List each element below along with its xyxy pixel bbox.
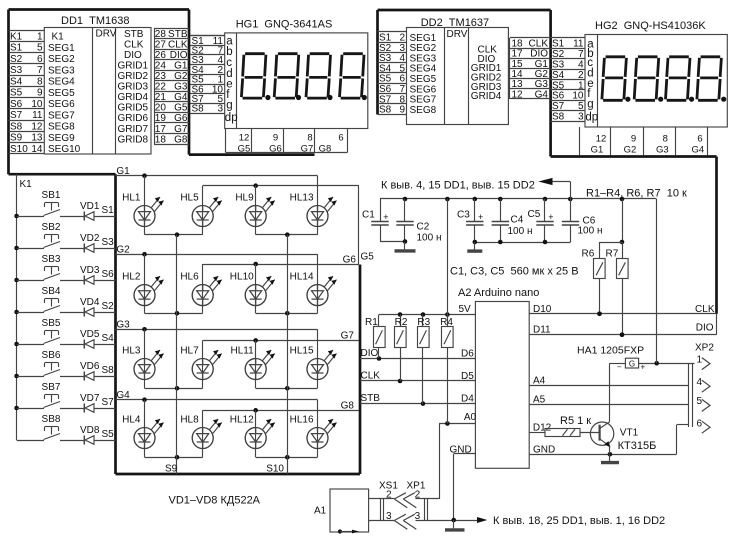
- HG1 digit 1: [241, 54, 266, 98]
- svg-text:dp: dp: [585, 112, 598, 124]
- svg-text:S8: S8: [379, 105, 392, 116]
- diode VD3: [60, 265, 116, 285]
- HG2 decimal point 1: [625, 97, 630, 102]
- svg-text:SEG10: SEG10: [48, 144, 81, 155]
- svg-text:11: 11: [32, 110, 43, 121]
- svg-text:C1, C3, C5 560 мк x 25 В: C1, C3, C5 560 мк x 25 В: [450, 266, 579, 278]
- svg-text:SEG8: SEG8: [410, 105, 437, 116]
- pin GND left wire: [450, 444, 476, 520]
- button SB5: [17, 318, 61, 345]
- svg-text:S8: S8: [192, 104, 205, 115]
- svg-text:7: 7: [578, 49, 584, 60]
- net DIO wire / pin D6: [360, 348, 475, 361]
- wire C1-C2 ground bus: [380, 239, 407, 244]
- svg-text:C3: C3: [457, 210, 470, 221]
- svg-text:DIO: DIO: [361, 348, 379, 359]
- svg-text:HL5: HL5: [180, 193, 199, 204]
- node G1 row bus: [116, 173, 318, 234]
- svg-text:12: 12: [596, 133, 607, 144]
- ground symbol at bus: [445, 520, 465, 530]
- HG1 decimal point 4: [362, 95, 367, 100]
- button SB3: [17, 254, 61, 281]
- svg-text:S5: S5: [552, 80, 565, 91]
- svg-text:S2: S2: [10, 54, 23, 65]
- svg-text:S1: S1: [102, 205, 115, 216]
- svg-text:G8: G8: [319, 143, 332, 154]
- svg-text:SEG9: SEG9: [48, 133, 75, 144]
- svg-text:HL10: HL10: [230, 272, 254, 283]
- svg-text:S2: S2: [552, 49, 565, 60]
- svg-text:D10: D10: [533, 304, 552, 315]
- svg-text:GRID2: GRID2: [118, 71, 149, 82]
- svg-text:G5: G5: [361, 252, 375, 263]
- svg-text:6: 6: [697, 418, 703, 429]
- net K1 bus: [14, 174, 19, 440]
- svg-text:9: 9: [631, 133, 636, 144]
- svg-text:S1: S1: [552, 39, 565, 50]
- resistor R2: [395, 315, 408, 382]
- pin A4 wire: [529, 376, 689, 387]
- svg-text:STB: STB: [361, 393, 381, 404]
- svg-text:18: 18: [155, 134, 167, 145]
- svg-text:SEG4: SEG4: [48, 77, 75, 88]
- HG2 digit 4: [697, 57, 722, 101]
- resistor R7: [606, 242, 629, 337]
- svg-text:HL6: HL6: [180, 272, 199, 283]
- capacitor C5: [544, 199, 546, 221]
- svg-text:S8: S8: [10, 121, 23, 132]
- LED HL8: [180, 415, 221, 449]
- wire row 1 bottom left: [145, 232, 203, 237]
- svg-text:SEG7: SEG7: [48, 110, 75, 121]
- svg-text:DRV: DRV: [96, 29, 117, 40]
- LED HL3: [122, 346, 163, 380]
- HG2 digit 1: [602, 57, 627, 101]
- HG1 digit 4: [340, 54, 365, 98]
- svg-text:17: 17: [155, 124, 167, 135]
- svg-text:S2: S2: [102, 301, 115, 312]
- wire row 2 second bus: [203, 262, 359, 314]
- pin GND right wire: [529, 444, 676, 456]
- svg-text:G3: G3: [656, 144, 669, 155]
- svg-text:S3: S3: [102, 237, 115, 248]
- connector coupling marks: [381, 499, 428, 521]
- svg-text:D6: D6: [461, 349, 474, 360]
- XS1/XP1 pin 2: [369, 489, 440, 508]
- svg-text:8: 8: [663, 133, 668, 144]
- net G5 vertical wire: [358, 186, 360, 265]
- net STB wire / pin D4: [360, 393, 475, 406]
- DD2 right pin boxes 18 CLK..12 G4: [510, 38, 551, 101]
- svg-text:DIO: DIO: [696, 323, 714, 334]
- svg-text:R7: R7: [606, 249, 619, 260]
- svg-text:VD4: VD4: [80, 297, 100, 308]
- pin A0 wire: [439, 412, 476, 426]
- svg-text:HL11: HL11: [231, 346, 255, 357]
- svg-text:CLK: CLK: [695, 304, 715, 315]
- svg-text:9: 9: [273, 132, 278, 143]
- XP2 pin 4: [697, 377, 711, 392]
- diode VD6: [60, 361, 116, 381]
- svg-text:VD1: VD1: [80, 201, 100, 212]
- svg-text:VT1: VT1: [620, 428, 639, 439]
- svg-text:HL15: HL15: [290, 346, 314, 357]
- svg-text:S1: S1: [10, 43, 23, 54]
- svg-text:G8: G8: [341, 400, 355, 411]
- DD1 left pin boxes K1/S1-S10: [9, 31, 45, 155]
- button SB7: [17, 382, 61, 409]
- button SB2: [17, 222, 61, 249]
- svg-text:HL3: HL3: [122, 346, 141, 357]
- svg-text:XP2: XP2: [695, 343, 714, 354]
- button SB8: [17, 414, 61, 441]
- svg-text:12: 12: [512, 89, 524, 100]
- svg-text:S6: S6: [10, 99, 23, 110]
- capacitor C4: [500, 199, 502, 221]
- svg-text:19: 19: [155, 113, 167, 124]
- HG1 display box: [225, 33, 368, 129]
- svg-text:D4: D4: [461, 394, 474, 405]
- chip module DD1 outer box: [9, 10, 190, 175]
- svg-text:К выв. 4, 15 DD1, выв. 15 DD2: К выв. 4, 15 DD1, выв. 15 DD2: [381, 180, 535, 192]
- svg-text:К выв. 18, 25 DD1, выв. 1, 16: К выв. 18, 25 DD1, выв. 1, 16 DD2: [493, 515, 665, 527]
- svg-text:2: 2: [415, 489, 421, 500]
- svg-text:SB4: SB4: [42, 286, 61, 297]
- svg-text:GRID6: GRID6: [118, 113, 149, 124]
- resistor R5: [545, 415, 600, 437]
- DD2 internal right labels CLK DIO GRID1-4: [471, 44, 502, 102]
- HG2 decimal point 3: [689, 97, 694, 102]
- svg-text:SEG1: SEG1: [48, 43, 75, 54]
- svg-text:G5: G5: [238, 143, 251, 154]
- svg-text:DD1 TM1638: DD1 TM1638: [61, 15, 129, 27]
- wire CLK-DIO end vertical: [716, 314, 718, 335]
- svg-text:G1: G1: [591, 144, 604, 155]
- svg-text:A2 Arduino nano: A2 Arduino nano: [458, 287, 539, 299]
- pin D11 / net DIO wire: [529, 325, 716, 338]
- svg-text:K1: K1: [20, 179, 33, 190]
- svg-text:+: +: [478, 212, 483, 222]
- svg-text:G7: G7: [174, 124, 188, 135]
- HG2 digit 3: [666, 57, 691, 101]
- svg-text:24: 24: [155, 60, 167, 71]
- LED HL6: [180, 272, 221, 306]
- svg-text:DIO: DIO: [170, 50, 188, 61]
- svg-text:HL1: HL1: [122, 193, 141, 204]
- svg-text:S10: S10: [266, 464, 284, 475]
- node G2 row bus: [116, 252, 318, 313]
- svg-text:CLK: CLK: [168, 39, 188, 50]
- svg-text:SB8: SB8: [42, 414, 61, 425]
- HG1 module thick underline: [189, 153, 315, 156]
- svg-text:CLK: CLK: [361, 371, 381, 382]
- svg-text:G7: G7: [341, 330, 355, 341]
- wire row 3 bottom left: [145, 386, 203, 391]
- svg-text:G4: G4: [174, 92, 188, 103]
- svg-text:100 н: 100 н: [417, 233, 442, 244]
- svg-text:SEG5: SEG5: [48, 88, 75, 99]
- HG2 decimal point 4: [721, 97, 726, 102]
- svg-text:DRV: DRV: [447, 29, 468, 40]
- svg-text:G5: G5: [174, 103, 188, 114]
- svg-text:G: G: [629, 360, 635, 369]
- wire row 3 bottom right: [256, 386, 318, 391]
- power rail arrow to DD1/DD2 supply pins: [381, 178, 571, 199]
- svg-text:dp: dp: [225, 112, 238, 124]
- svg-text:2: 2: [386, 489, 392, 500]
- svg-text:8: 8: [37, 76, 43, 87]
- HG1 digit 2: [274, 54, 299, 98]
- svg-text:100 н: 100 н: [578, 226, 603, 237]
- svg-text:G1: G1: [116, 166, 130, 177]
- LED HL2: [122, 272, 163, 306]
- svg-text:HL4: HL4: [122, 415, 141, 426]
- svg-text:5: 5: [697, 396, 703, 407]
- svg-text:HA1 1205FXP: HA1 1205FXP: [577, 345, 644, 357]
- HG1 segment letters a-dp: [225, 35, 238, 124]
- wire row 4 second bus: [203, 408, 359, 457]
- svg-text:S7: S7: [10, 110, 23, 121]
- svg-text:22: 22: [155, 82, 167, 93]
- svg-text:STB: STB: [168, 29, 188, 40]
- wire C3-C6 ground bus: [473, 240, 571, 245]
- svg-text:SB5: SB5: [42, 318, 61, 329]
- XP2 pin 5: [697, 396, 711, 411]
- HG1 decimal point 2: [296, 95, 301, 100]
- svg-text:S4: S4: [102, 333, 115, 344]
- svg-text:S10: S10: [10, 144, 28, 155]
- svg-text:STB: STB: [124, 29, 144, 40]
- pin A5 wire: [529, 395, 689, 406]
- svg-text:5: 5: [37, 43, 43, 54]
- svg-text:11: 11: [573, 39, 584, 50]
- svg-text:1: 1: [697, 354, 703, 365]
- svg-text:VD8: VD8: [80, 425, 100, 436]
- button SB6: [17, 350, 61, 377]
- svg-text:R1–R4, R6, R7 10 к: R1–R4, R6, R7 10 к: [586, 188, 687, 200]
- pin D12 wire: [529, 423, 551, 434]
- diode VD1: [60, 201, 116, 221]
- svg-text:GRID1: GRID1: [118, 60, 149, 71]
- svg-text:3: 3: [578, 112, 584, 123]
- svg-text:HL7: HL7: [180, 346, 199, 357]
- svg-text:HL12: HL12: [230, 415, 254, 426]
- svg-text:VD2: VD2: [80, 233, 100, 244]
- wire row 4 leads: [144, 400, 146, 458]
- svg-text:12: 12: [239, 132, 250, 143]
- svg-text:SB3: SB3: [42, 254, 61, 265]
- HG2 left pin boxes S1-S8: [551, 38, 585, 123]
- svg-text:S7: S7: [552, 101, 565, 112]
- svg-text:7: 7: [37, 65, 43, 76]
- ground bus wire: [416, 518, 478, 523]
- power rail wire: [380, 197, 657, 202]
- LED HL16: [290, 415, 337, 449]
- svg-text:G4: G4: [691, 144, 704, 155]
- svg-text:G6: G6: [343, 254, 357, 265]
- wire row 4 bottom left: [145, 455, 203, 460]
- wire row 2 leads: [144, 254, 146, 313]
- svg-text:HL8: HL8: [180, 415, 199, 426]
- svg-text:HL13: HL13: [290, 193, 314, 204]
- svg-text:21: 21: [155, 92, 167, 103]
- HG1 bottom pin boxes G5-G8: [226, 129, 348, 155]
- svg-text:VD3: VD3: [80, 265, 100, 276]
- svg-text:S7: S7: [102, 397, 115, 408]
- svg-text:G2: G2: [116, 244, 130, 255]
- svg-text:GRID8: GRID8: [118, 134, 149, 145]
- DD1 internal left labels K1 SEG1-SEG10: [48, 32, 81, 156]
- svg-text:SEG3: SEG3: [48, 65, 75, 76]
- svg-text:g: g: [226, 100, 232, 112]
- svg-text:HG2 GNQ-HS41036K: HG2 GNQ-HS41036K: [595, 20, 706, 32]
- DD1 internal right labels STB CLK DIO GRID1-8: [118, 29, 149, 146]
- node G3 row bus: [116, 327, 318, 388]
- svg-text:CLK: CLK: [124, 39, 144, 50]
- svg-text:10: 10: [572, 91, 584, 102]
- svg-text:9: 9: [399, 105, 405, 116]
- wire rail to R6 R7: [600, 199, 625, 244]
- svg-text:D5: D5: [461, 371, 474, 382]
- wire XP2 pin 6 riser: [677, 425, 690, 455]
- svg-text:+: +: [548, 212, 553, 222]
- svg-text:КТ315Б: КТ315Б: [618, 440, 657, 452]
- svg-text:28: 28: [155, 29, 167, 40]
- HG1 left pin boxes S1-S8: [190, 36, 225, 115]
- svg-text:S9: S9: [10, 133, 23, 144]
- svg-text:1: 1: [578, 80, 584, 91]
- svg-text:K1: K1: [10, 31, 23, 42]
- svg-text:6: 6: [697, 133, 702, 144]
- button SB4: [17, 286, 61, 313]
- svg-text:GRID3: GRID3: [118, 82, 149, 93]
- svg-text:12: 12: [31, 121, 43, 132]
- resistor R4: [440, 199, 453, 424]
- capacitor C3: [474, 199, 476, 221]
- diode VD8: [60, 425, 116, 445]
- HG2 decimal point 2: [658, 97, 663, 102]
- svg-text:g: g: [587, 99, 593, 111]
- LED HL9: [235, 193, 274, 227]
- HG2 module thick underline: [551, 155, 717, 158]
- svg-text:C4: C4: [511, 215, 524, 226]
- resistor R1: [365, 315, 385, 359]
- svg-text:C2: C2: [417, 222, 430, 233]
- svg-text:9: 9: [37, 88, 43, 99]
- LED HL14: [290, 272, 337, 306]
- LED HL12: [230, 415, 275, 449]
- svg-text:D11: D11: [533, 325, 551, 336]
- svg-text:VD5: VD5: [80, 329, 100, 340]
- svg-text:S5: S5: [10, 88, 23, 99]
- svg-text:R4: R4: [440, 317, 453, 328]
- svg-text:8: 8: [307, 132, 312, 143]
- svg-text:S5: S5: [102, 429, 115, 440]
- transistor VT1: [590, 363, 656, 454]
- wire row 1 second bus: [203, 183, 359, 234]
- LED HL1: [122, 193, 163, 227]
- diode VD7: [60, 393, 116, 413]
- wire XP1 pin 2 to A0: [439, 424, 441, 500]
- ground bus arrow and caption: [477, 515, 665, 527]
- wire S10 column: [287, 235, 289, 474]
- svg-text:3: 3: [217, 104, 223, 115]
- wire row 2 bottom right: [256, 311, 318, 316]
- svg-text:HL9: HL9: [235, 193, 254, 204]
- svg-text:GRID5: GRID5: [118, 103, 149, 114]
- capacitor C6: [570, 199, 572, 221]
- op IC DD2 chip box: [407, 28, 509, 125]
- svg-text:G6: G6: [174, 113, 188, 124]
- svg-text:27: 27: [155, 39, 167, 50]
- svg-text:SEG8: SEG8: [48, 122, 75, 133]
- resistor R3: [417, 315, 430, 404]
- wire row 1 leads: [144, 176, 146, 235]
- svg-text:R2: R2: [395, 317, 408, 328]
- wire row 1 bottom right: [256, 232, 318, 237]
- net CLK wire / pin D5: [360, 371, 475, 384]
- svg-text:SB6: SB6: [42, 350, 61, 361]
- diode VD2: [60, 233, 116, 253]
- svg-text:S6: S6: [102, 269, 115, 280]
- svg-text:6: 6: [37, 54, 43, 65]
- LED matrix module box: [116, 174, 361, 474]
- svg-text:GRID4: GRID4: [118, 92, 149, 103]
- svg-text:A0: A0: [464, 412, 477, 423]
- svg-text:C5: C5: [528, 209, 541, 220]
- svg-text:A1: A1: [314, 506, 327, 517]
- connector XP2: [689, 343, 715, 428]
- svg-text:SB7: SB7: [42, 382, 61, 393]
- svg-text:G4: G4: [116, 390, 130, 401]
- svg-text:5: 5: [578, 101, 584, 112]
- svg-text:20: 20: [155, 103, 167, 114]
- svg-text:10: 10: [31, 99, 43, 110]
- svg-text:R3: R3: [417, 317, 430, 328]
- wire rail to HA1: [656, 199, 658, 363]
- wire row 2 bottom left: [145, 311, 203, 316]
- svg-text:SB1: SB1: [42, 190, 61, 201]
- HG2 segment letters a-dp: [585, 39, 598, 124]
- svg-text:1: 1: [37, 31, 43, 42]
- pin D10 / net CLK wire: [529, 304, 716, 316]
- svg-text:5V: 5V: [459, 304, 472, 315]
- svg-text:G2: G2: [624, 144, 637, 155]
- LED HL5: [180, 193, 221, 227]
- svg-text:G2: G2: [174, 71, 188, 82]
- DD1 right pin boxes 28 STB..18 G8: [154, 28, 189, 145]
- wire row 4 bottom right: [256, 455, 318, 460]
- svg-text:GRID4: GRID4: [471, 91, 502, 102]
- module A1 box: [314, 489, 369, 532]
- svg-text:DIO: DIO: [124, 50, 142, 61]
- svg-text:100 н: 100 н: [508, 226, 533, 237]
- wire S9 column: [176, 235, 178, 474]
- svg-text:GND: GND: [450, 444, 472, 455]
- svg-text:A5: A5: [533, 395, 546, 406]
- HG1 digit 3: [306, 54, 331, 98]
- buzzer HA1: [577, 345, 695, 372]
- svg-text:SEG6: SEG6: [48, 99, 75, 110]
- svg-text:4: 4: [578, 60, 584, 71]
- wire row 3 second bus: [203, 338, 359, 388]
- svg-text:S8: S8: [552, 112, 565, 123]
- capacitor C2: [404, 199, 406, 221]
- svg-text:13: 13: [31, 133, 43, 144]
- svg-text:G3: G3: [116, 319, 130, 330]
- svg-text:G3: G3: [174, 82, 188, 93]
- XP2 pin 1: [697, 354, 711, 369]
